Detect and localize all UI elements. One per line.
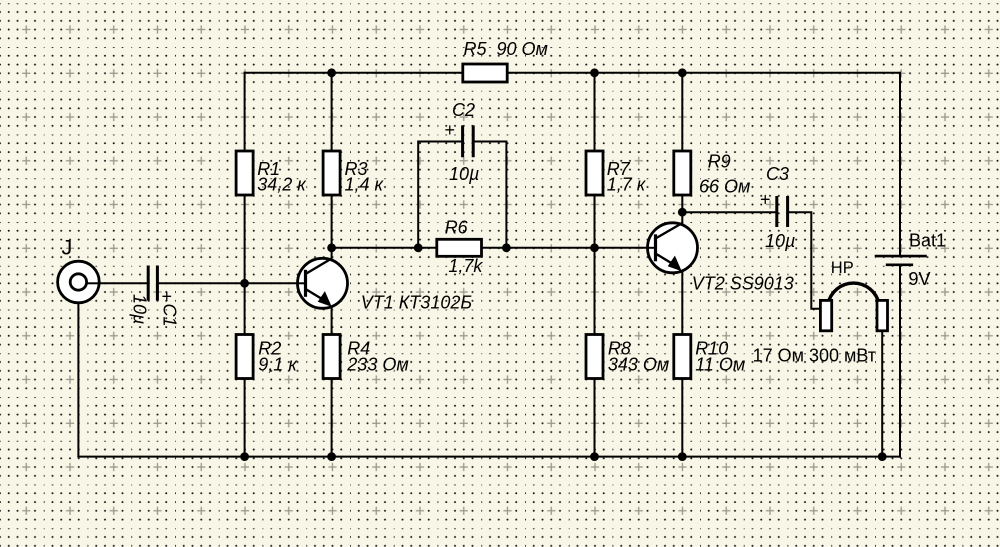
- resistor R10: [674, 335, 691, 379]
- transistor VT1: [296, 258, 348, 308]
- junction node: [678, 68, 687, 77]
- wire R3 VT1 column: [331, 73, 333, 457]
- wire bottom ground rail: [78, 456, 900, 458]
- resistor R5: [463, 64, 507, 82]
- resistor R6: [437, 239, 482, 256]
- wire C3 to headphone: [789, 212, 820, 309]
- wire mid line VT1 collector to VT2 base: [332, 247, 656, 249]
- wire right side battery top drop: [899, 73, 901, 256]
- junction node: [502, 243, 511, 252]
- junction node: [327, 68, 336, 77]
- junction node: [414, 243, 423, 252]
- svg-text:233 Ом: 233 Ом: [346, 354, 408, 374]
- junction node: [240, 452, 249, 461]
- svg-text:1,7 к: 1,7 к: [607, 175, 647, 195]
- resistor R2: [236, 335, 253, 379]
- svg-text:C2: C2: [452, 100, 475, 120]
- svg-text:R9: R9: [708, 152, 731, 172]
- junction node: [327, 452, 336, 461]
- resistor R8: [586, 335, 603, 379]
- junction node: [678, 452, 687, 461]
- wire R1 R2 column: [244, 73, 246, 457]
- resistor R3: [323, 151, 340, 195]
- capacitor C3 plates: [777, 196, 788, 227]
- wire VT2 collector to C3: [682, 211, 775, 213]
- svg-text:C3: C3: [766, 164, 789, 184]
- svg-text:10µ: 10µ: [449, 164, 479, 184]
- svg-text:HP: HP: [831, 259, 854, 277]
- junction node: [678, 208, 687, 217]
- svg-text:+: +: [444, 120, 455, 140]
- resistor R4: [323, 335, 340, 379]
- wire R7 R8 column: [594, 73, 596, 457]
- resistor R1: [236, 151, 253, 195]
- svg-text:10µ: 10µ: [130, 294, 150, 324]
- svg-text:9V: 9V: [909, 269, 931, 289]
- capacitor C1 plates: [148, 266, 157, 301]
- resistor R7: [586, 151, 603, 195]
- svg-text:9,1 к: 9,1 к: [258, 354, 298, 374]
- junction node: [590, 68, 599, 77]
- svg-text:C1: C1: [160, 304, 180, 327]
- svg-text:66 Ом: 66 Ом: [699, 177, 750, 197]
- svg-text:VT2 SS9013: VT2 SS9013: [692, 273, 794, 293]
- transistor VT2: [646, 223, 698, 273]
- wire battery bottom drop: [899, 265, 901, 457]
- svg-text:1,4 к: 1,4 к: [345, 175, 385, 195]
- wire C1 to VT1 base: [159, 282, 306, 284]
- svg-text:10µ: 10µ: [765, 231, 795, 251]
- svg-text:34,2 к: 34,2 к: [257, 175, 307, 195]
- wire input line jack to C1: [85, 282, 147, 284]
- svg-text:R6: R6: [445, 218, 469, 238]
- junction node: [240, 279, 249, 288]
- svg-text:J: J: [62, 236, 73, 260]
- junction node: [878, 452, 887, 461]
- wire jack to ground rail: [77, 302, 79, 457]
- capacitor C2 plates: [463, 125, 474, 157]
- wire jack pin: [87, 282, 101, 284]
- junction node: [590, 243, 599, 252]
- svg-text:VT1 КТ3102Б: VT1 КТ3102Б: [361, 292, 473, 312]
- headphone HP symbol: [820, 283, 887, 331]
- wire R9 VT2 R10 column: [681, 73, 683, 457]
- svg-text:17 Ом 300 мВт: 17 Ом 300 мВт: [753, 346, 876, 366]
- resistor R9: [674, 151, 691, 195]
- wire headphone right to ground: [881, 331, 883, 457]
- wire top rail: [245, 72, 900, 74]
- svg-text:11 Ом: 11 Ом: [695, 354, 745, 374]
- wire C2 left leg: [418, 142, 461, 248]
- wire C2 right leg: [475, 142, 507, 248]
- battery Bat1: [875, 256, 927, 265]
- junction node: [327, 243, 336, 252]
- svg-text:+: +: [760, 190, 771, 210]
- svg-text:R5 90 Ом: R5 90 Ом: [464, 39, 548, 59]
- connector J (input jack): [58, 261, 100, 303]
- junction node: [590, 452, 599, 461]
- svg-text:1,7k: 1,7k: [448, 256, 483, 276]
- svg-text:343 Ом: 343 Ом: [608, 354, 669, 374]
- svg-text:Bat1: Bat1: [909, 231, 946, 251]
